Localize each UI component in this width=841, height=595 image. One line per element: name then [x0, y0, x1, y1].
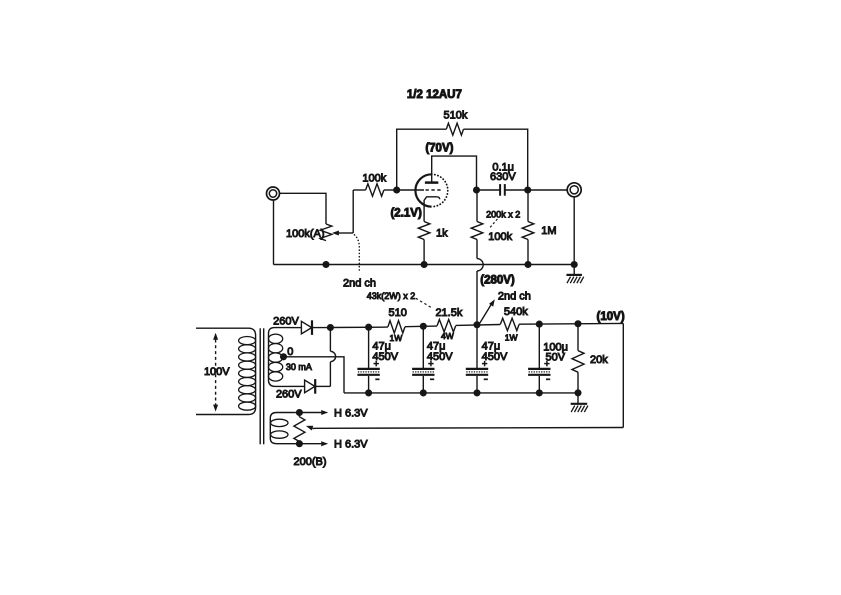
node 1k bus junction [421, 261, 428, 268]
svg-text:(2.1V): (2.1V) [390, 208, 421, 220]
wire heater top tap [293, 412, 299, 414]
label 630V [490, 171, 516, 183]
label (2.1V) [390, 208, 421, 220]
resistor 21.5k filter [437, 320, 456, 332]
label C3 47u [482, 340, 501, 352]
svg-text:1/2 12AU7: 1/2 12AU7 [407, 89, 462, 101]
node C2 rail [420, 323, 427, 330]
title label 1/2 12AU7 [407, 89, 462, 101]
output jack J2 [567, 183, 581, 197]
wire wiper to grid line [352, 190, 354, 233]
wire D2 riser with hop [330, 328, 335, 387]
svg-text:20k: 20k [590, 354, 608, 366]
label 0.1u [492, 162, 514, 174]
wire plate to top [432, 156, 477, 190]
svg-text:200(B): 200(B) [293, 456, 326, 468]
ground PSU [571, 393, 588, 412]
wire grid entry [397, 189, 424, 191]
label 1k [436, 227, 448, 239]
label 100k (plate load) [488, 231, 512, 243]
svg-text:1W: 1W [390, 333, 403, 343]
resistor 1M grid leak [522, 190, 534, 265]
label 100k (grid) [362, 173, 386, 185]
wire center tap to ground bus [284, 357, 345, 393]
node grid junction [393, 186, 400, 193]
node heater top tap [296, 409, 303, 416]
dotted link to 2nd ch (volume pot) [355, 235, 360, 271]
node (280V) junction [473, 321, 480, 328]
svg-text:260V: 260V [273, 316, 299, 328]
node volume pot bus junction [322, 261, 329, 268]
label 2nd ch (psu) [498, 290, 531, 302]
svg-text:30 mA: 30 mA [286, 362, 312, 372]
transformer core [260, 328, 264, 444]
svg-text:100k: 100k [362, 173, 386, 185]
arrow heater bottom [299, 441, 328, 446]
transformer HV secondary winding [269, 328, 290, 387]
svg-text:540k: 540k [504, 306, 528, 318]
label 20k [590, 354, 608, 366]
wire feedback right riser [464, 129, 528, 190]
svg-text:100k: 100k [488, 231, 512, 243]
capacitor C1 47u 450V [357, 327, 379, 393]
svg-text:1M: 1M [541, 225, 556, 237]
cathode of U1 [424, 197, 440, 222]
label 100k(A) [286, 228, 325, 240]
triode U1 1/2 12AU7 envelope [415, 174, 447, 206]
label C4 100u [543, 342, 568, 354]
wire D2 to riser [315, 385, 330, 387]
label 43k(2W) x 2 [367, 291, 416, 301]
arrow heater top [299, 410, 328, 415]
svg-text:(280V): (280V) [480, 275, 515, 287]
node C2 ground [420, 389, 427, 396]
capacitor C2 47u 450V [412, 326, 434, 393]
node C1 ground [365, 389, 372, 396]
node output ground junction [571, 261, 578, 268]
svg-text:100V: 100V [204, 366, 230, 378]
label 510k [443, 110, 467, 122]
label H 6.3V (top) [334, 407, 368, 419]
wire 100k to grid node [384, 189, 397, 191]
label (70V) [425, 142, 453, 154]
wire feedback left riser [397, 129, 447, 190]
dashed arrow 100V [213, 333, 218, 412]
wiper arrow of 200(B) [306, 426, 623, 431]
svg-text:4W: 4W [441, 331, 454, 341]
wire coupling cap to output node [505, 189, 528, 191]
label 100V [204, 366, 230, 378]
node C3 ground [473, 389, 480, 396]
svg-text:450V: 450V [372, 351, 398, 363]
wire top ground bus [274, 264, 575, 266]
label (10V) [597, 311, 625, 323]
svg-text:1W: 1W [505, 333, 518, 343]
svg-text:630V: 630V [490, 171, 516, 183]
resistor 510k feedback [446, 123, 463, 135]
svg-text:450V: 450V [427, 351, 453, 363]
resistor 510 filter [388, 321, 405, 333]
wire PSU ground bus [344, 392, 578, 394]
arrow to 2nd ch supply [480, 299, 495, 322]
svg-text:50V: 50V [546, 352, 566, 364]
wire hop over ground bus (plate load) [477, 259, 483, 325]
wire D1 to B+ junction [312, 327, 330, 329]
svg-text:260V: 260V [276, 388, 302, 400]
node 20k ground [574, 389, 581, 396]
svg-text:450V: 450V [482, 351, 508, 363]
svg-text:(70V): (70V) [425, 142, 453, 154]
svg-text:(10V): (10V) [597, 311, 625, 323]
label 21.5k [435, 307, 462, 319]
node C4 rail [536, 321, 543, 328]
label 1W (540k) [505, 333, 518, 343]
label C1 450V [372, 351, 398, 363]
node HV center tap [280, 353, 287, 360]
svg-text:H 6.3V: H 6.3V [334, 439, 368, 451]
resistor 100k grid stopper [366, 184, 384, 196]
resistor 20k bleeder [572, 324, 584, 393]
label 1M [541, 225, 556, 237]
capacitor C4 100u 50V [528, 324, 550, 393]
svg-text:510k: 510k [443, 110, 467, 122]
label C3 450V [482, 351, 508, 363]
wire wiper to 100k resistor [353, 189, 365, 191]
wire input jack down lead [273, 200, 275, 265]
label 30 mA [286, 362, 312, 372]
label C4 50V [546, 352, 566, 364]
svg-text:100k(A): 100k(A) [286, 228, 325, 240]
label H 6.3V (bottom) [334, 439, 368, 451]
label (280V) [480, 275, 515, 287]
dashed pointer 200k x 2 [490, 219, 497, 227]
wire output jack to bus [573, 197, 575, 265]
wire output node to jack [528, 189, 568, 191]
resistor 100k plate load [471, 190, 483, 259]
node 1M bus junction [524, 261, 531, 268]
label 260V (top) [273, 316, 299, 328]
svg-text:510: 510 [389, 307, 407, 319]
svg-text:200k x 2: 200k x 2 [486, 209, 520, 219]
label 2nd ch (top) [343, 277, 376, 289]
label 200k x 2 [486, 209, 520, 219]
resistor 540k dropper [500, 318, 519, 330]
wire plate node to coupling cap [477, 189, 501, 191]
wire heater bottom tap [293, 443, 299, 445]
svg-text:2nd ch: 2nd ch [498, 290, 531, 302]
svg-text:2nd ch: 2nd ch [343, 277, 376, 289]
capacitor C3 47u 450V [466, 325, 488, 393]
input jack J1 [267, 187, 280, 200]
ground top circuit [566, 265, 583, 284]
node 20k rail [574, 320, 581, 327]
label 260V (bottom) [276, 388, 302, 400]
wiper arrow of 100k(A) [332, 231, 353, 236]
wire B+ rail [330, 323, 623, 427]
diode D1 [301, 320, 312, 335]
capacitor 0.1u 630V coupling [500, 184, 505, 196]
node C4 ground [536, 389, 543, 396]
wire HV bottom to diode [290, 385, 305, 387]
potentiometer 200(B) hum balance [294, 413, 305, 444]
label 4W [441, 331, 454, 341]
svg-text:43k(2W) x 2: 43k(2W) x 2 [367, 291, 416, 301]
node heater bottom tap [296, 440, 303, 447]
diode D2 [305, 379, 316, 394]
svg-text:21.5k: 21.5k [435, 307, 462, 319]
dashed pointer 43k [416, 298, 433, 308]
node output junction [524, 186, 531, 193]
transformer primary winding [196, 328, 256, 414]
label 0 (center tap) [287, 346, 293, 358]
label C2 47u [427, 340, 446, 352]
svg-text:H 6.3V: H 6.3V [334, 407, 368, 419]
wire input jack to volume pot [280, 193, 327, 224]
plate of U1 [425, 181, 438, 184]
label C1 47u [372, 340, 391, 352]
grid of U1 (dashed) [426, 189, 443, 191]
label 510 [389, 307, 407, 319]
label 1W (510) [390, 333, 403, 343]
transformer heater winding [270, 413, 293, 444]
resistor 1k cathode [418, 222, 430, 240]
node plate junction [473, 186, 480, 193]
wire 1k to bus [423, 240, 425, 265]
label 200(B) [293, 456, 326, 468]
wire HV top to diode [290, 327, 302, 329]
svg-text:1k: 1k [436, 227, 448, 239]
node C1 rail [365, 324, 372, 331]
label C2 450V [427, 351, 453, 363]
label 540k [504, 306, 528, 318]
potentiometer 100k(A) volume [320, 224, 332, 241]
node B+ junction [327, 324, 334, 331]
